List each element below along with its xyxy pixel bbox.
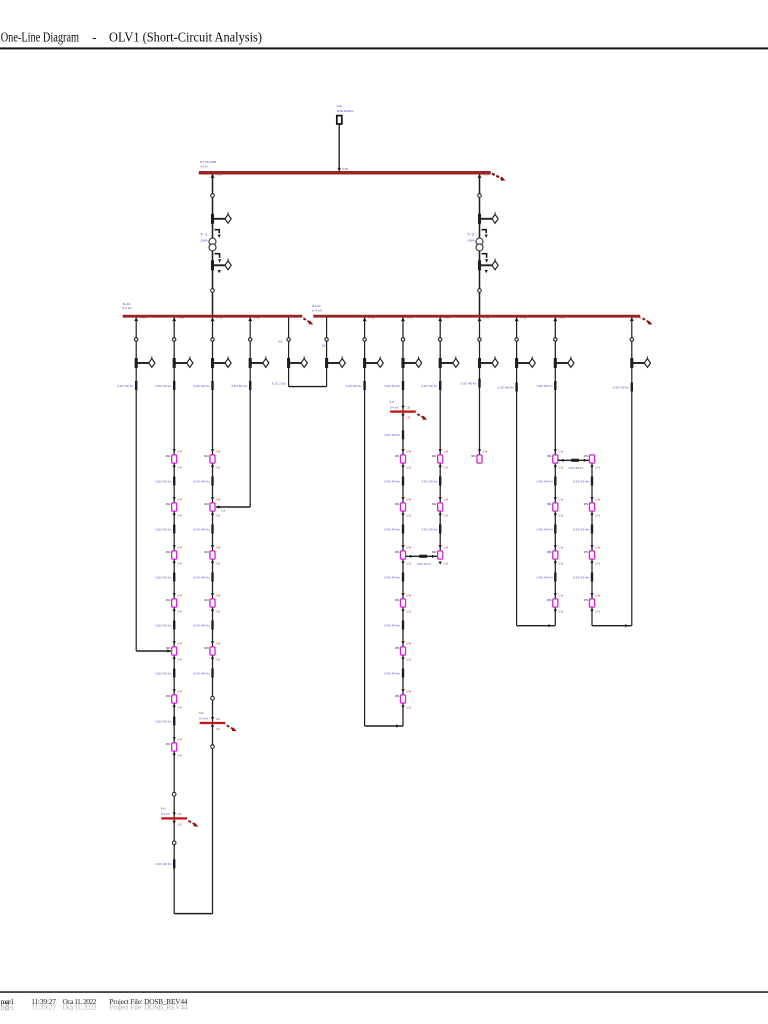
feeder MCC-C tap [401,317,414,321]
fuse switch FS14 [249,356,269,368]
node CB15 [211,338,214,341]
node CB18 [249,338,252,341]
bus B-C1 (sub bus) [390,400,427,420]
svg-text:3-3/C 4/0 4m: 3-3/C 4/0 4m [384,384,400,388]
svg-text:0.46: 0.46 [406,497,411,501]
svg-text:0.46: 0.46 [178,545,183,549]
svg-text:0.41: 0.41 [178,754,183,758]
arrow below FS1b [218,270,221,273]
svg-text:0.41: 0.41 [216,514,221,518]
svg-text:M22: M22 [204,502,209,506]
cable C23a label [384,479,400,483]
transformer T2 label [467,232,475,242]
svg-text:0.41: 0.41 [595,514,600,518]
svg-text:M23: M23 [204,550,209,554]
cable C12e [173,669,175,678]
svg-text:0.41: 0.41 [216,466,221,470]
load M14 [166,593,183,614]
node CB2b [478,289,482,293]
svg-text:0.41: 0.41 [216,562,221,566]
cable C27c label [536,575,552,579]
svg-text:M43: M43 [432,550,437,554]
fuse switch FS24 [478,356,498,368]
footer [0,991,768,1011]
svg-text:0.41: 0.41 [216,610,221,614]
cable C22 label [384,384,400,388]
svg-text:T-1: T-1 [200,232,208,236]
svg-text:0.42: 0.42 [178,317,185,320]
svg-text:0.46: 0.46 [216,641,221,645]
node CB13 [172,792,176,796]
svg-text:0.42: 0.42 [483,317,490,320]
svg-text:3.96: 3.96 [342,168,349,171]
svg-text:3-3/C 4/0 4m: 3-3/C 4/0 4m [155,719,171,723]
svg-text:M62: M62 [547,502,552,506]
load M72 [584,497,601,518]
svg-text:3-3/C 4/0 4m: 3-3/C 4/0 4m [536,384,552,388]
bus B-LV2 fault zigzag [643,318,653,324]
cable C27 label [536,384,552,388]
svg-text:0.46: 0.46 [216,497,221,501]
svg-text:3-3/C 4/0 4m: 3-3/C 4/0 4m [384,433,400,437]
svg-text:1.92: 1.92 [216,718,221,721]
fuse switch FS13 [211,356,231,368]
svg-text:U1: U1 [337,104,343,108]
node CB1a [211,194,215,198]
svg-text:3-3/C 4/0 4m: 3-3/C 4/0 4m [573,479,589,483]
cable C28b label [573,527,589,531]
svg-text:-: - [92,29,97,44]
load M13 [166,545,183,566]
fuse switch FS22 [401,356,421,368]
fault arrow out of T2 [482,254,489,263]
svg-text:3-3/C 4/0 4m: 3-3/C 4/0 4m [536,527,552,531]
svg-text:3-3/C 4/0 4m: 3-3/C 4/0 4m [155,527,171,531]
cable C23b [402,525,404,534]
svg-text:0.41: 0.41 [178,514,183,518]
svg-text:M32: M32 [395,502,400,506]
svg-text:S1: S1 [278,340,283,344]
svg-text:0.42: 0.42 [444,317,451,320]
wire feeder CB27 [631,317,633,625]
svg-text:M63: M63 [547,550,552,554]
wire feeder MCC-B [212,317,214,913]
svg-text:0.46: 0.46 [559,449,564,453]
transformer T2 [476,238,483,251]
cable C12c [173,573,175,582]
tie cable EF label [568,466,583,470]
wire tie left [288,317,290,386]
bus B-A1 (sub bus) [161,807,198,827]
svg-text:0.4 kV: 0.4 kV [312,309,324,313]
cable C12a [173,477,175,486]
wire feeder CB21 [364,317,366,726]
svg-text:0.41: 0.41 [559,514,564,518]
cable C27b [554,525,556,534]
svg-text:0.46: 0.46 [406,593,411,597]
feeder CB25 tap [515,317,528,321]
load M62 [547,497,564,518]
cable C12 [173,381,175,390]
svg-text:3-3/C 4/0 4m: 3-3/C 4/0 4m [536,575,552,579]
svg-text:0.46: 0.46 [216,593,221,597]
svg-text:page 1: page 1 [1,1003,15,1012]
svg-text:B-LV2: B-LV2 [312,304,320,308]
svg-text:0.4 kV: 0.4 kV [199,717,209,721]
svg-text:0.41: 0.41 [406,706,411,710]
cable C14d label [194,623,210,627]
svg-text:3-3/C 4/0 2m: 3-3/C 4/0 2m [568,466,583,470]
cable C25 [478,379,480,388]
load M24 [204,593,221,614]
node CB12 [173,338,176,341]
svg-text:M13: M13 [166,550,171,554]
cable C29 label [613,385,629,389]
cable C12b label [155,527,171,531]
wire bottom tie A-B [174,913,212,915]
svg-text:B-C1: B-C1 [390,400,395,404]
svg-text:3-3/C 4/0 4m: 3-3/C 4/0 4m [573,575,589,579]
bus B-MV label [200,160,216,168]
svg-text:0.41: 0.41 [178,706,183,710]
svg-text:0.46: 0.46 [216,449,221,453]
svg-text:0.41: 0.41 [216,658,221,662]
cable C14b label [194,527,210,531]
svg-text:0.42: 0.42 [559,317,566,320]
svg-text:0.46: 0.46 [406,545,411,549]
cable C14c label [194,575,210,579]
wire chain F [591,460,593,625]
wire feeder MCC-E [554,317,556,625]
svg-text:0.46: 0.46 [559,593,564,597]
svg-text:M41: M41 [432,454,437,458]
svg-text:0.42: 0.42 [520,317,527,320]
cable C25 label [461,381,477,385]
wire feeder MCC-C [402,317,404,726]
feeder MCC-D tap [438,317,451,321]
node CB11 [135,338,138,341]
svg-text:M11: M11 [166,454,171,458]
cable C24a label [421,479,437,483]
svg-text:2.5MVA: 2.5MVA [200,238,208,242]
svg-text:0.46: 0.46 [406,449,411,453]
wire feeder CB25 [516,317,518,625]
svg-text:0.46: 0.46 [444,449,449,453]
load M21 [204,449,221,470]
node S2 [325,338,328,341]
svg-text:0.46: 0.46 [178,689,183,693]
svg-text:3-3/C 4/0 4m: 3-3/C 4/0 4m [346,384,362,388]
cable C28a label [573,479,589,483]
cable C12f [173,717,175,726]
cable C23a [402,477,404,486]
node CB21 [363,338,366,341]
load M32 [395,497,412,518]
node CB1b [211,289,215,293]
fuse switch FS2a [478,212,498,224]
svg-text:3-3/C 4/0 4m: 3-3/C 4/0 4m [194,671,210,675]
cable C12 label [155,384,171,388]
transformer T1 label [200,232,208,242]
node CB22 [401,338,404,341]
svg-text:M24: M24 [204,598,209,602]
fuse switch FS26 [554,356,574,368]
svg-text:M16: M16 [166,694,171,698]
cable C12d label [155,623,171,627]
fault arrow into T1 primary [215,230,221,238]
wire chain F to CB27 [592,624,632,627]
svg-text:M72: M72 [584,502,589,506]
cable C15 [249,381,251,390]
cable C14d [211,621,213,630]
cable C14a label [194,479,210,483]
svg-text:B-B1: B-B1 [199,711,204,715]
node CB26 [554,338,557,341]
fault arrow out of T1 [215,254,222,263]
feeder CB21 tap [363,317,376,321]
load M34 [395,593,412,614]
svg-text:0.4 kV: 0.4 kV [390,405,400,409]
svg-text:S2: S2 [322,344,326,348]
cable C12d [173,621,175,630]
svg-text:3-3/C 4/0 4m: 3-3/C 4/0 4m [384,575,400,579]
svg-text:0.41: 0.41 [406,466,411,470]
fuse switch FS16 [325,356,345,368]
svg-text:Project File: DOSB_REV44: Project File: DOSB_REV44 [109,1003,187,1012]
svg-text:0.41: 0.41 [559,466,564,470]
svg-text:One-Line Diagram: One-Line Diagram [1,29,80,44]
node CB27 [630,338,633,341]
cable C27a label [536,479,552,483]
load M17 [166,737,183,758]
svg-text:M71: M71 [584,454,589,458]
svg-text:0.41: 0.41 [406,610,411,614]
feeder CB11 tap [134,317,147,321]
cable C14e label [194,671,210,675]
load M63 [547,545,564,566]
fuse switch FS12 [173,356,193,368]
bus B-MV (main bus) [199,171,491,174]
svg-text:3-3/C 4/0 4m: 3-3/C 4/0 4m [155,575,171,579]
bus B-LV2 [314,315,641,317]
svg-text:34.5 kV: 34.5 kV [200,164,208,168]
svg-text:0.41: 0.41 [178,562,183,566]
cable C26 [515,383,517,392]
cable C14c [211,573,213,582]
cable C23 [402,430,404,439]
load M12 [166,497,183,518]
wire tie right [326,317,328,386]
svg-text:0.46: 0.46 [178,593,183,597]
load M33 [395,545,412,566]
fuse switch FS1b [211,259,231,271]
svg-text:0.46: 0.46 [483,449,488,453]
svg-text:0.41: 0.41 [559,610,564,614]
cable C24 [439,381,441,390]
wire feeder CB24 [479,317,481,454]
svg-text:3-3/C 4/0 4m: 3-3/C 4/0 4m [461,381,477,385]
svg-text:M74: M74 [584,598,589,602]
svg-text:M21: M21 [204,454,209,458]
load M42 [432,497,449,518]
svg-text:0.42: 0.42 [140,317,147,320]
svg-text:B-A1: B-A1 [161,807,166,811]
svg-text:0.41: 0.41 [444,466,449,470]
svg-text:0.46: 0.46 [178,449,183,453]
cable C23d [402,621,404,630]
svg-text:3-3/C 4/0 4m: 3-3/C 4/0 4m [155,384,171,388]
wire C15 to M22 [216,505,250,512]
svg-text:Oca 11, 2022: Oca 11, 2022 [63,1003,97,1012]
svg-text:3-3/C 4/0 3m: 3-3/C 4/0 3m [417,562,431,566]
load M35 [395,641,412,662]
feeder CB18 tap [248,317,261,321]
cable C28c label [573,575,589,579]
wire C26 to MCC-E [517,624,556,627]
svg-text:0.42: 0.42 [216,317,223,320]
title header [0,29,768,49]
load M23 [204,545,221,566]
cable C23c label [384,575,400,579]
node CB2a [478,194,482,198]
fuse switch FS1a [211,212,231,224]
svg-text:0.41: 0.41 [406,514,411,518]
wire bus1 to T1 [212,174,214,316]
cable C11 label [117,384,133,388]
svg-text:3-3/C 4/0 4m: 3-3/C 4/0 4m [155,862,171,866]
svg-text:1250 MVAsc: 1250 MVAsc [337,109,354,113]
wire C11 to MCC-A [136,649,174,652]
svg-text:0.42: 0.42 [407,317,414,320]
bus1 tap arrow T1 [211,174,224,178]
svg-text:3-3/C 4/0 4m: 3-3/C 4/0 4m [231,384,247,388]
svg-text:3-3/C 4/0 4m: 3-3/C 4/0 4m [384,479,400,483]
load M43 [432,545,449,566]
cable C27 [554,381,556,390]
svg-text:0.41: 0.41 [444,562,449,566]
cable C27b label [536,527,552,531]
node S1 [287,338,290,341]
svg-text:3-1/C 2 5m: 3-1/C 2 5m [272,381,286,385]
cable C23e label [384,671,400,675]
svg-text:0.46: 0.46 [595,593,600,597]
bus B-LV1 label [122,302,132,310]
cable C23c [402,573,404,582]
transformer T1 [209,238,216,251]
load M36 [395,689,412,710]
cable C21 label [346,384,362,388]
svg-text:3-3/C 4/0 4m: 3-3/C 4/0 4m [384,623,400,627]
svg-text:M61: M61 [547,454,552,458]
svg-text:0.46: 0.46 [406,641,411,645]
svg-text:3-3/C 4/0 4m: 3-3/C 4/0 4m [421,527,437,531]
cable C28b [591,525,593,534]
svg-text:2.5MVA: 2.5MVA [467,238,475,242]
svg-text:T-2: T-2 [467,232,475,236]
svg-text:3-3/C 4/0 4m: 3-3/C 4/0 4m [421,479,437,483]
svg-text:M64: M64 [547,598,552,602]
node CB16 [211,696,215,700]
fuse switch FS25 [515,356,535,368]
cable C12a label [155,479,171,483]
node CB17 [211,745,215,749]
cable C14a [211,477,213,486]
bus B-B1 (sub bus) [199,711,236,731]
tie switch SW-CD [406,555,438,558]
svg-text:M51: M51 [471,454,476,458]
svg-text:3-3/C 4/0 4m: 3-3/C 4/0 4m [155,479,171,483]
bus B-LV1 fault zigzag [303,318,313,324]
load M74 [584,593,601,614]
svg-text:0.46: 0.46 [406,689,411,693]
svg-text:1.92: 1.92 [177,813,182,816]
svg-text:3-3/C 4/0 4m: 3-3/C 4/0 4m [194,479,210,483]
wire feeder CB11 [135,317,137,651]
svg-text:3-3/C 4/0 4m: 3-3/C 4/0 4m [194,384,210,388]
fuse switch FS27 [630,356,650,368]
svg-text:0.46: 0.46 [178,641,183,645]
fuse switch FS15 [287,356,307,368]
node CB23 [439,338,442,341]
svg-text:0.46: 0.46 [559,545,564,549]
bus B-LV1 [123,315,302,317]
svg-text:0.41: 0.41 [595,562,600,566]
wire utility to bus1 [338,124,340,171]
svg-text:0.42: 0.42 [636,317,643,320]
load M71 [584,454,601,470]
svg-text:0.41: 0.41 [595,610,600,614]
load M61 [547,449,564,470]
svg-text:M17: M17 [166,742,171,746]
cable C14b [211,525,213,534]
load M64 [547,593,564,614]
cable C14e [211,669,213,678]
load M16 [166,689,183,710]
svg-text:0.46: 0.46 [178,497,183,501]
svg-text:M14: M14 [166,598,171,602]
svg-text:OLV1 (Short-Circuit Analysis): OLV1 (Short-Circuit Analysis) [109,29,262,44]
svg-text:1.90: 1.90 [177,823,182,826]
fuse switch FS2b [478,259,498,271]
svg-text:4.37: 4.37 [483,174,490,177]
cable C12b [173,525,175,534]
svg-text:M34: M34 [395,598,400,602]
cable C21 [363,381,365,390]
svg-text:0.41: 0.41 [178,610,183,614]
wire feeder CB18 [249,317,251,507]
svg-text:0.46: 0.46 [595,497,600,501]
svg-text:0.41: 0.41 [559,562,564,566]
cable C13 [173,859,175,868]
node CB14 [172,841,176,845]
cable C28a [591,477,593,486]
load M11 [166,449,183,470]
svg-text:M33: M33 [395,550,400,554]
svg-text:1.90: 1.90 [216,728,221,731]
svg-text:3-3/C 4/0 4m: 3-3/C 4/0 4m [536,479,552,483]
svg-text:0.4 kV: 0.4 kV [161,812,171,816]
svg-text:3-3/C 4/0 4m: 3-3/C 4/0 4m [384,527,400,531]
svg-text:0.41: 0.41 [444,514,449,518]
feeder MCC-B tap [211,317,224,321]
svg-text:M25: M25 [204,646,209,650]
cable C12c label [155,575,171,579]
cable C24b label [421,527,437,531]
svg-text:3-3/C 4/0 4m: 3-3/C 4/0 4m [194,623,210,627]
bus1 tap arrow T2 [478,174,491,178]
cable C27a [554,477,556,486]
fuse switch FS23 [439,356,459,368]
